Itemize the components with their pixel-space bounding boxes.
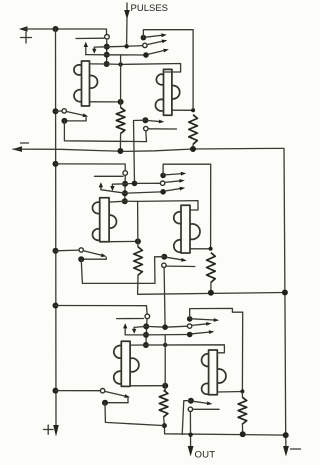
core T2 (right core stage1) (155, 69, 179, 115)
node junction (104, 44, 110, 50)
wire row1 stage1 (94, 46, 143, 48)
diode arm row1 stage1 (147, 40, 167, 45)
wire R5 feed (164, 335, 166, 391)
diode arm row1 stage3 (192, 322, 212, 326)
wire row2 stage2 (101, 190, 161, 194)
core T3 (left core stage2) (92, 198, 116, 242)
wire row2 stage1 (86, 54, 144, 56)
node contact dot (160, 189, 166, 195)
arrow up annotation stage2 (99, 182, 103, 190)
arrow down annotation stage3 (132, 327, 136, 333)
OUT output terminal (188, 412, 216, 461)
node contact circle (143, 43, 147, 47)
wire core T2 top bracket (107, 64, 181, 73)
resistor R6 (238, 397, 247, 424)
wire minus rail 2 (138, 275, 285, 294)
node contact dot (143, 52, 149, 58)
resistor R3 (134, 247, 143, 275)
diode arm row2 stage2 (165, 187, 185, 191)
node junction (104, 52, 110, 58)
core T6 (right core stage3) (202, 350, 226, 395)
node +bus junction top (53, 26, 59, 32)
transfer switch cluster stage1 (142, 117, 176, 131)
node set-line dot stage2 (160, 173, 166, 179)
wire core T1 bottom lead (90, 101, 121, 103)
node junction (135, 238, 141, 244)
wire +rail top (24, 29, 107, 34)
diode arm set stage2 (165, 172, 186, 176)
wire stage2 feed (56, 164, 126, 171)
wire winding lead stub stage1 (76, 37, 104, 39)
wire minus rail 3 (164, 426, 285, 436)
node rail3-right-rail junction (283, 432, 289, 438)
node junction (162, 423, 167, 428)
node junction (209, 247, 213, 251)
left switch cluster stage3 (53, 388, 131, 406)
diode arm row2 stage1 (148, 49, 169, 55)
node junction (122, 198, 128, 204)
wire R3 feed (137, 201, 139, 247)
wire R1 to rail (119, 133, 121, 151)
node set-line dot stage1 (141, 35, 147, 41)
node junction (143, 323, 149, 329)
wire row1 stage3 (134, 326, 187, 327)
diode arm row1 stage2 (165, 179, 185, 183)
wire core T3 bottom lead (109, 240, 138, 242)
node pulse junction (124, 44, 128, 48)
node junction (163, 343, 167, 347)
wire core T5 bottom lead (130, 385, 165, 387)
arrow down annotation stage2 (110, 184, 114, 191)
node carry junction (162, 324, 168, 330)
left switch cluster stage2 (53, 248, 107, 262)
node junction (240, 431, 246, 437)
node rail2-right-rail junction (282, 290, 288, 296)
left switch cluster stage1 (53, 108, 89, 124)
arrow down annotation stage1 (92, 47, 96, 54)
plus terminal bottom-left (44, 425, 59, 437)
arrow up annotation stage1 (84, 42, 88, 55)
svg-text:OUT: OUT (195, 449, 216, 460)
node junction (190, 146, 196, 152)
node junction (122, 181, 128, 187)
wire winding lead stub stage2 (94, 175, 123, 177)
wire set-line over top stage2 (163, 164, 211, 249)
minus terminal bottom-right (283, 446, 301, 457)
wire R1 feed (120, 55, 122, 108)
wire R2 to rail (192, 144, 194, 148)
wire row2 stage3 (125, 334, 187, 336)
wire winding bottom right core stage3 (217, 391, 242, 394)
wire winding bottom right core stage2 (191, 248, 211, 250)
arrow up annotation stage3 (123, 323, 127, 335)
node contact circle (187, 324, 191, 328)
node junction (191, 108, 195, 112)
wire row1 stage2 (112, 182, 160, 185)
node contact dot (187, 332, 193, 338)
wire dot-column stage1 (106, 39, 108, 64)
minus terminal mid-left (12, 143, 29, 152)
wire set-line over top stage1 (143, 30, 193, 111)
wire winding lead stub stage3 (117, 318, 144, 320)
node winding terminal T1a (105, 35, 110, 40)
wire dot-column stage2 (124, 175, 126, 201)
node winding terminal T3a (123, 171, 128, 176)
wire right rail (284, 149, 286, 448)
wire winding bottom right core stage1 (172, 109, 193, 111)
node junction (118, 99, 124, 105)
wire R4 to rail (210, 282, 212, 292)
wire core T3 top lead (109, 200, 138, 203)
wire core T4 top bracket (138, 201, 198, 210)
resistor R4 (207, 253, 216, 283)
wire +bus vertical (55, 29, 58, 426)
node set-line dot stage3 (187, 316, 193, 322)
diode arm set stage1 (146, 33, 167, 37)
wire minus rail 1 (13, 148, 284, 151)
resistor R5 (159, 390, 168, 417)
node junction (208, 290, 214, 296)
wire R6 bottom stub (241, 424, 243, 434)
node junction (143, 332, 149, 338)
node carry junction (132, 181, 138, 187)
plus terminal top-left (19, 26, 32, 43)
svg-text:PULSES: PULSES (131, 3, 169, 14)
transfer switch cluster stage2 (155, 254, 195, 268)
wire set-line over top stage3 (190, 308, 243, 391)
wire switch common stage1 (64, 121, 146, 142)
wire core T6 top bracket (146, 345, 225, 353)
resistor R1 (116, 107, 125, 133)
node junction (104, 61, 110, 67)
node junction (122, 190, 128, 196)
PULSES input terminal (124, 3, 168, 47)
node +bus junction stage2 (53, 161, 59, 167)
wire switch common stage3 (105, 403, 164, 426)
node winding terminal T5a (145, 314, 150, 319)
wire carry stage1 to stage2 (134, 120, 146, 183)
node junction (118, 62, 122, 66)
diode arm row2 stage3 (192, 330, 214, 334)
wire stage3 feed (56, 306, 148, 314)
wire switch common stage2 (81, 257, 155, 284)
diode arm set stage3 (192, 318, 219, 322)
core T5 (left core stage3) (114, 341, 139, 386)
core T1 (left core stage1) (74, 61, 97, 106)
wire R5 bottom stub (163, 417, 166, 426)
node contact circle (160, 181, 164, 185)
node junction (240, 389, 244, 393)
node junction (117, 148, 123, 154)
resistor R2 (189, 115, 198, 145)
node +bus junction stage3 (53, 303, 59, 309)
node junction (162, 383, 168, 389)
wire dot-column stage3 (146, 319, 147, 345)
node junction (143, 342, 149, 348)
wire core T1 top lead (90, 63, 107, 65)
core T4 (right core stage2) (174, 205, 200, 253)
wire R6 to rail (241, 393, 243, 398)
wire core T5 top lead (130, 344, 146, 346)
wire carry stage2 to stage3 (164, 268, 165, 328)
transfer switch cluster stage3 (182, 398, 219, 435)
